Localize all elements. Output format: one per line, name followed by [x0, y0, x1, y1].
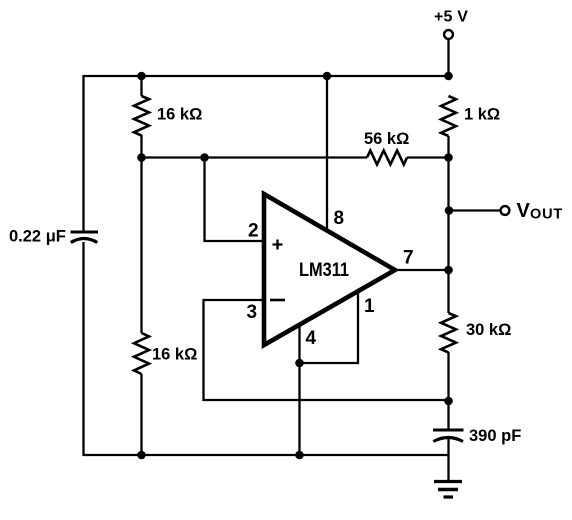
svg-text:OUT: OUT: [530, 207, 563, 223]
op-amp plus sign: [273, 240, 283, 250]
svg-text:3: 3: [247, 302, 258, 323]
svg-text:4: 4: [306, 328, 317, 349]
wire right rail mid to pin7: [447, 158, 449, 314]
resistor 16k top: [134, 96, 149, 136]
wire pin 2: [205, 158, 266, 242]
node pin4 rail: [295, 451, 304, 460]
wire left rail upper: [82, 75, 84, 231]
wire left rail lower: [82, 242, 84, 456]
svg-text:56 kΩ: 56 kΩ: [364, 130, 409, 148]
svg-text:0.22 μF: 0.22 μF: [9, 228, 66, 246]
wire pin 7: [394, 269, 449, 271]
wire top bus: [84, 75, 448, 77]
node pin2 tap: [200, 153, 209, 162]
svg-text:8: 8: [334, 208, 345, 229]
wire pin 1: [300, 292, 359, 363]
wire pin 8: [326, 76, 328, 230]
node vout: [445, 206, 454, 215]
wire pin 3 feedback: [204, 300, 449, 400]
wire mid node horizontal: [142, 156, 368, 158]
svg-text:390 pF: 390 pF: [469, 427, 521, 445]
wire right rail 1k to mid: [447, 136, 449, 158]
svg-text:30 kΩ: 30 kΩ: [466, 321, 511, 339]
svg-text:V: V: [517, 200, 531, 222]
wire right rail 30k to cap: [447, 352, 449, 430]
svg-text:1 kΩ: 1 kΩ: [464, 106, 500, 124]
resistor 56k: [367, 151, 407, 165]
wire bottom rail: [83, 454, 448, 456]
resistor 30k: [441, 313, 456, 353]
capacitor 390pF: [433, 427, 521, 445]
node 56k right: [444, 153, 453, 162]
node +5V top bus: [444, 72, 453, 81]
ground: [434, 482, 462, 498]
svg-text:2: 2: [248, 221, 259, 242]
terminal +5V: [444, 30, 453, 39]
node pin7: [444, 266, 453, 275]
resistor 1k: [441, 96, 456, 136]
wire 56k right lead: [407, 156, 449, 158]
resistor 16k bottom: [134, 333, 149, 374]
op-amp U1 LM311: [264, 194, 395, 345]
wire pin 4: [298, 325, 300, 455]
node divider mid: [137, 153, 146, 162]
wire 16k branch middle: [140, 135, 142, 333]
wire 16k branch upper: [140, 76, 142, 96]
node RC: [444, 397, 453, 406]
svg-text:1: 1: [364, 296, 375, 317]
node pin8 top bus: [323, 72, 332, 81]
wire +5V stem: [447, 39, 449, 76]
node pin1 pin4: [295, 359, 304, 368]
svg-text:16 kΩ: 16 kΩ: [157, 106, 202, 124]
op-amp minus sign: [270, 299, 285, 302]
terminal VOUT: [501, 206, 510, 215]
node 16k top bus: [137, 72, 146, 81]
wire vout: [449, 209, 500, 211]
svg-text:LM311: LM311: [299, 260, 349, 281]
wire right rail cap to ground: [447, 438, 449, 481]
node 16k bottom rail: [137, 451, 146, 460]
svg-text:16 kΩ: 16 kΩ: [152, 346, 197, 364]
wire 16k branch lower: [140, 374, 142, 455]
svg-text:+5 V: +5 V: [434, 9, 468, 26]
capacitor 0.22uF: [9, 228, 98, 246]
svg-text:7: 7: [403, 248, 414, 269]
